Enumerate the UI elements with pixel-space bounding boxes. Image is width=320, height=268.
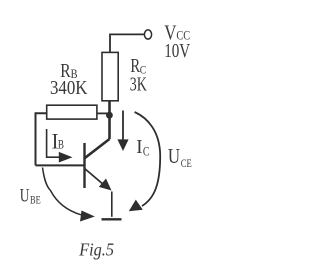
svg-text:C: C <box>143 144 150 158</box>
svg-text:Fig.5: Fig.5 <box>78 240 114 260</box>
svg-text:10V: 10V <box>164 40 190 62</box>
svg-text:340K: 340K <box>50 77 88 99</box>
svg-text:I: I <box>136 136 142 158</box>
svg-text:3K: 3K <box>130 74 147 96</box>
svg-text:BE: BE <box>30 194 41 206</box>
svg-text:B: B <box>58 138 64 152</box>
svg-text:CE: CE <box>181 156 192 170</box>
svg-text:U: U <box>20 186 30 206</box>
svg-text:U: U <box>168 144 180 168</box>
